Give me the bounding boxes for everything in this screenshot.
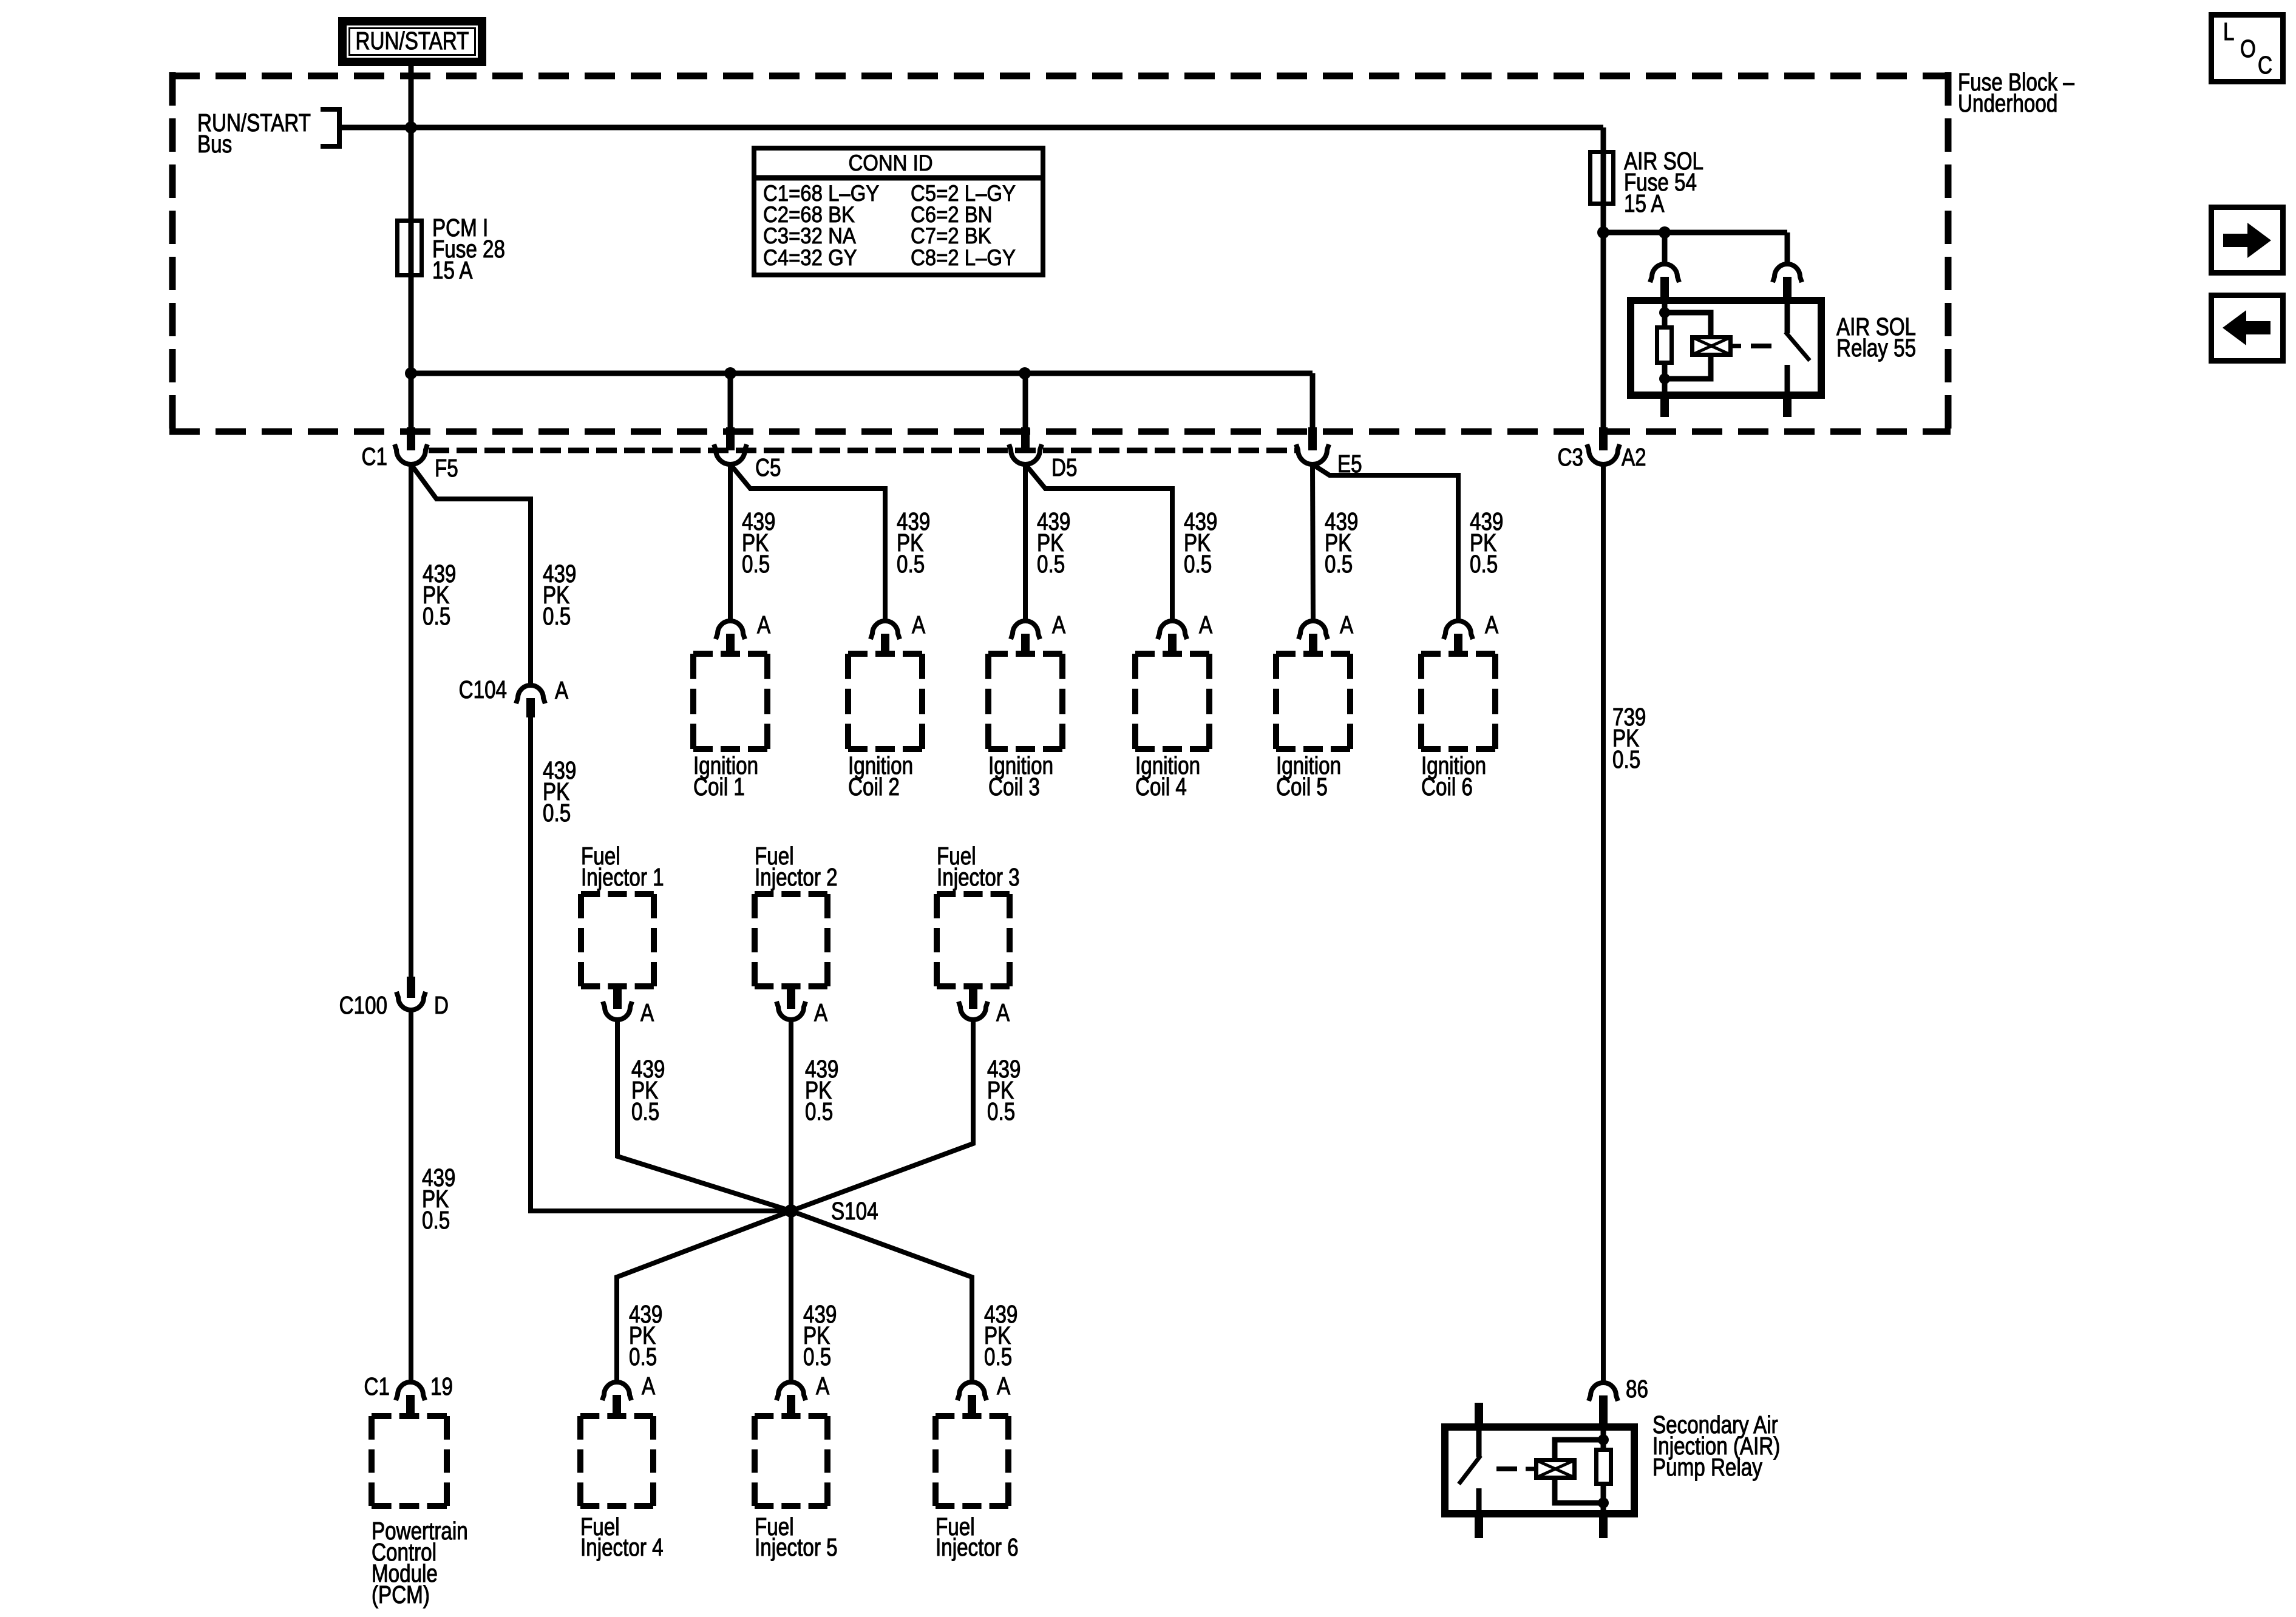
ignition coil 2 box <box>848 654 922 801</box>
svg-text:S104: S104 <box>831 1197 878 1225</box>
svg-text:0.5: 0.5 <box>543 602 571 630</box>
wire bus down through AIR SOL fuse <box>1601 127 1606 429</box>
connector ignition coil 4 pin A <box>1158 611 1212 654</box>
wire C5 to ignition coil 1 <box>728 464 733 621</box>
ignition coil 6 box <box>1421 654 1495 801</box>
svg-text:Coil 6: Coil 6 <box>1421 773 1473 801</box>
label wire 439 PK 0.5 (coil 3) <box>1037 507 1070 578</box>
arrow next-page box <box>2212 208 2283 273</box>
svg-text:A: A <box>640 998 654 1026</box>
connector C1 dotted body line <box>429 448 1297 453</box>
svg-text:RUN/START: RUN/START <box>356 27 469 55</box>
label wire 739 PK 0.5 <box>1612 703 1646 773</box>
wire fuel injector 2 to S104 <box>789 1022 793 1211</box>
label wire 439 PK 0.5 (coil 2) <box>897 507 930 578</box>
connector pin E5 <box>1296 427 1362 478</box>
svg-text:A: A <box>997 1372 1010 1400</box>
ignition coil 3 box <box>988 654 1062 801</box>
ignition coil 1 box <box>693 654 767 801</box>
label wire 439 PK 0.5 (injector 6) <box>984 1300 1017 1371</box>
connector C1 pin F5 <box>362 427 458 482</box>
connector relay 55 switch pin <box>1773 264 1802 297</box>
svg-text:L: L <box>2223 18 2234 46</box>
fuel injector 4 box <box>580 1416 664 1561</box>
connector ignition coil 1 pin A <box>716 611 770 654</box>
RUN/START feed box <box>342 21 482 62</box>
svg-text:C1: C1 <box>364 1372 390 1400</box>
fuel injector 6 box <box>936 1416 1019 1561</box>
svg-text:C: C <box>2258 51 2272 79</box>
svg-text:Bus: Bus <box>197 130 232 158</box>
label wire 439 PK 0.5 (coil 5) <box>1325 507 1358 578</box>
svg-text:A: A <box>816 1372 829 1400</box>
fuse AIR SOL Fuse 54 15A <box>1591 147 1704 217</box>
svg-text:0.5: 0.5 <box>423 602 450 630</box>
label wire 439 PK 0.5 (coil 4) <box>1184 507 1217 578</box>
svg-text:Injector 1: Injector 1 <box>581 863 664 891</box>
svg-text:Coil 2: Coil 2 <box>848 773 900 801</box>
wire RUN/START feed into fuse block <box>409 66 414 429</box>
wire E5 to ignition coil 5 <box>1313 464 1313 621</box>
relay Secondary Air Injection AIR Pump Relay <box>1445 1403 1780 1538</box>
ignition coil 4 box <box>1135 654 1209 801</box>
connector ignition coil 3 pin A <box>1011 611 1065 654</box>
svg-text:Coil 1: Coil 1 <box>693 773 745 801</box>
wire S104 to fuel injector 6 <box>791 1211 972 1382</box>
connector C104 pin A <box>459 676 569 717</box>
svg-text:D: D <box>434 991 449 1019</box>
svg-text:A: A <box>1340 611 1353 639</box>
svg-text:C1: C1 <box>362 442 387 470</box>
wire C5 jog to ignition coil 2 <box>730 464 885 621</box>
svg-text:C104: C104 <box>459 676 507 703</box>
node bus junction <box>405 121 417 134</box>
svg-text:15 A: 15 A <box>432 256 473 284</box>
svg-text:0.5: 0.5 <box>1612 745 1640 773</box>
label wire 439 PK 0.5 (C104-S104) <box>543 756 576 827</box>
svg-text:A2: A2 <box>1622 443 1646 471</box>
svg-text:A: A <box>1052 611 1065 639</box>
label wire 439 PK 0.5 (injector 2) <box>805 1055 838 1125</box>
connector C100 pin D <box>339 977 449 1019</box>
svg-text:0.5: 0.5 <box>1470 550 1498 578</box>
svg-text:0.5: 0.5 <box>805 1097 833 1125</box>
wire RUN/START bus horizontal <box>342 125 1603 131</box>
svg-text:19: 19 <box>430 1372 453 1400</box>
svg-text:Injector 2: Injector 2 <box>755 863 838 891</box>
svg-text:A: A <box>912 611 925 639</box>
svg-text:0.5: 0.5 <box>803 1343 831 1371</box>
svg-text:Injector 6: Injector 6 <box>936 1533 1019 1561</box>
wire tap to relay coil pin <box>1662 232 1668 263</box>
wire S104 to fuel injector 4 <box>617 1211 791 1382</box>
connector PCM C1 pin 19 <box>364 1372 453 1416</box>
node relay coil pin tap <box>1659 226 1671 239</box>
svg-text:A: A <box>1199 611 1212 639</box>
connector fuel injector 3 pin A <box>959 986 1010 1026</box>
wire C3/A2 down to AIR pump relay <box>1601 464 1606 1382</box>
CONN ID table <box>754 148 1043 275</box>
svg-text:Injector 4: Injector 4 <box>580 1533 664 1561</box>
connector ignition coil 2 pin A <box>871 611 925 654</box>
splice S104 <box>784 1197 878 1225</box>
LOC reference box <box>2212 15 2283 82</box>
svg-text:0.5: 0.5 <box>543 799 571 827</box>
svg-text:D5: D5 <box>1051 453 1077 481</box>
relay AIR SOL Relay 55 <box>1631 297 1916 417</box>
svg-text:Injector 5: Injector 5 <box>755 1533 838 1561</box>
node rail tap D5 <box>1019 367 1031 379</box>
connector ignition coil 6 pin A <box>1444 611 1498 654</box>
svg-text:O: O <box>2240 35 2256 63</box>
svg-text:C100: C100 <box>339 991 387 1019</box>
node rail tap C5 <box>724 367 736 379</box>
svg-text:C8=2 L–GY: C8=2 L–GY <box>911 245 1016 270</box>
wire E5 jog to ignition coil 6 <box>1313 464 1458 621</box>
svg-text:0.5: 0.5 <box>984 1343 1012 1371</box>
fuel injector 2 box <box>755 842 838 986</box>
ignition coil 5 box <box>1276 654 1350 801</box>
wire fuel injector 3 to S104 <box>791 1022 973 1211</box>
svg-text:0.5: 0.5 <box>1037 550 1065 578</box>
svg-text:C4=32 GY: C4=32 GY <box>763 245 857 270</box>
svg-text:0.5: 0.5 <box>742 550 770 578</box>
svg-text:A: A <box>814 998 827 1026</box>
svg-text:0.5: 0.5 <box>422 1206 450 1234</box>
svg-text:Injector 3: Injector 3 <box>937 863 1020 891</box>
label wire 439 PK 0.5 (C1-C104) <box>543 560 576 630</box>
RUN/START Bus label and bracket <box>197 109 339 158</box>
label wire 439 PK 0.5 (injector 1) <box>631 1055 665 1125</box>
wire tap down to E5 <box>1310 373 1316 429</box>
label wire 439 PK 0.5 (C1-C100) <box>423 560 456 630</box>
fuse block underhood dashed boundary box <box>169 72 1951 435</box>
svg-text:A: A <box>1485 611 1498 639</box>
svg-text:Pump Relay: Pump Relay <box>1652 1453 1762 1481</box>
fuel injector 3 box <box>937 842 1020 986</box>
svg-text:Coil 4: Coil 4 <box>1135 773 1187 801</box>
wire D5 jog to ignition coil 4 <box>1025 464 1172 621</box>
wire C100 to PCM <box>409 1012 413 1381</box>
svg-text:Coil 5: Coil 5 <box>1276 773 1328 801</box>
connector relay 55 coil pin <box>1650 264 1679 297</box>
fuel injector 5 box <box>755 1416 838 1561</box>
connector pin D5 <box>1009 427 1077 481</box>
svg-text:F5: F5 <box>435 454 458 482</box>
wire D5 to ignition coil 3 <box>1023 464 1028 621</box>
connector C3 pin A2 <box>1558 427 1646 471</box>
svg-text:A: A <box>555 676 568 704</box>
svg-text:0.5: 0.5 <box>629 1343 657 1371</box>
svg-text:0.5: 0.5 <box>897 550 925 578</box>
label wire 439 PK 0.5 (injector 5) <box>803 1300 837 1371</box>
wire fuel injector 1 to S104 <box>617 1022 791 1211</box>
svg-text:C5: C5 <box>755 453 781 481</box>
svg-text:0.5: 0.5 <box>631 1097 659 1125</box>
svg-text:Relay 55: Relay 55 <box>1836 334 1916 362</box>
svg-text:0.5: 0.5 <box>987 1097 1015 1125</box>
wire tap down to D5 <box>1023 373 1028 429</box>
wire C104 to S104 <box>531 717 791 1211</box>
svg-text:0.5: 0.5 <box>1184 550 1212 578</box>
connector pin C5 <box>714 427 781 481</box>
node rail left junction <box>405 367 417 379</box>
wire C1/F5 jog to C104 <box>411 464 531 684</box>
svg-text:CONN ID: CONN ID <box>848 151 932 175</box>
svg-text:C3: C3 <box>1558 443 1583 471</box>
connector fuel injector 5 pin A <box>776 1372 829 1416</box>
connector fuel injector 6 pin A <box>957 1372 1010 1416</box>
svg-text:15 A: 15 A <box>1624 189 1665 217</box>
label Fuse Block - Underhood <box>1958 68 2074 117</box>
label wire 439 PK 0.5 (injector 3) <box>987 1055 1021 1125</box>
label wire 439 PK 0.5 (injector 4) <box>629 1300 662 1371</box>
svg-text:A: A <box>757 611 770 639</box>
connector AIR pump relay pin 86 <box>1589 1375 1648 1423</box>
label wire 439 PK 0.5 (coil 1) <box>742 507 775 578</box>
label wire 439 PK 0.5 (C100-PCM) <box>422 1164 455 1234</box>
svg-text:A: A <box>642 1372 655 1400</box>
fuse PCM I Fuse 28 15A <box>398 214 505 284</box>
svg-text:A: A <box>996 998 1010 1026</box>
module Powertrain Control Module box <box>372 1416 468 1609</box>
connector ignition coil 5 pin A <box>1299 611 1353 654</box>
node fuse 54 output <box>1597 226 1609 239</box>
wire tap down to C5 <box>728 373 733 429</box>
connector fuel injector 2 pin A <box>776 986 827 1026</box>
arrow prev-page box <box>2212 296 2283 361</box>
connector fuel injector 1 pin A <box>603 986 654 1026</box>
svg-text:0.5: 0.5 <box>1325 550 1353 578</box>
wire C1/F5 to C100 <box>409 464 413 977</box>
svg-text:Coil 3: Coil 3 <box>988 773 1040 801</box>
wire ignition coil feed rail <box>411 371 1313 376</box>
fuel injector 1 box <box>581 842 664 986</box>
wire S104 to fuel injector 5 <box>789 1211 793 1382</box>
svg-text:86: 86 <box>1626 1375 1648 1403</box>
svg-text:Underhood: Underhood <box>1958 89 2057 117</box>
connector fuel injector 4 pin A <box>602 1372 655 1416</box>
label wire 439 PK 0.5 (coil 6) <box>1470 507 1503 578</box>
svg-text:(PCM): (PCM) <box>372 1581 430 1609</box>
wire fuse 54 to relay switch pin <box>1603 232 1787 263</box>
